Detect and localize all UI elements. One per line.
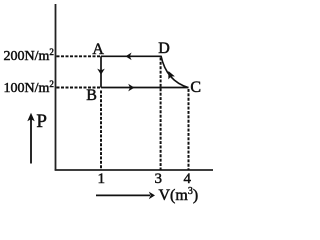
dashed guide V=3 bbox=[160, 58, 162, 171]
svg-text:D: D bbox=[158, 40, 170, 57]
arrowhead on B-C pointing right bbox=[128, 84, 134, 92]
dashed guide V=4 bbox=[188, 89, 190, 170]
svg-text:C: C bbox=[190, 79, 201, 96]
arrowhead on curve pointing up-left toward D bbox=[165, 69, 175, 79]
svg-text:V(m3): V(m3) bbox=[159, 186, 199, 204]
svg-text:A: A bbox=[92, 41, 104, 58]
dashed guide 100 N/m2 level bbox=[57, 87, 101, 89]
P axis (vertical) bbox=[55, 4, 57, 170]
svg-text:1: 1 bbox=[98, 171, 106, 187]
svg-text:100N/m2: 100N/m2 bbox=[4, 79, 54, 96]
process line A to B (isochore) bbox=[100, 56, 102, 87]
V axis arrow bbox=[96, 194, 150, 196]
dashed guide V=1 bbox=[100, 91, 102, 171]
arrowhead on D-A pointing left bbox=[125, 53, 131, 61]
svg-text:4: 4 bbox=[184, 171, 192, 187]
process line D to A (top isobar) bbox=[101, 55, 161, 57]
svg-text:3: 3 bbox=[155, 171, 163, 187]
svg-text:B: B bbox=[86, 87, 97, 104]
arrowhead on A-B pointing down bbox=[97, 69, 105, 75]
V axis (horizontal) bbox=[55, 169, 213, 171]
svg-text:P: P bbox=[36, 111, 47, 132]
svg-text:200N/m2: 200N/m2 bbox=[4, 47, 54, 64]
process curve C to D bbox=[161, 56, 189, 88]
process line B to C (bottom isobar) bbox=[101, 87, 189, 89]
dashed guide 200 N/m2 level bbox=[57, 55, 102, 57]
P axis arrow bbox=[30, 119, 32, 164]
